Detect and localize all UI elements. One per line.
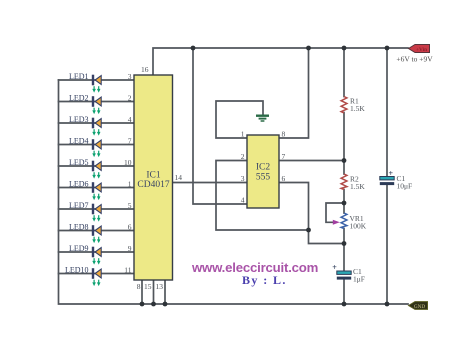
- svg-text:LED4: LED4: [69, 137, 89, 146]
- svg-text:6: 6: [282, 174, 286, 183]
- svg-text:GND: GND: [414, 304, 425, 310]
- svg-text:3: 3: [128, 72, 132, 81]
- svg-text:1μF: 1μF: [353, 274, 365, 283]
- svg-text:+: +: [332, 263, 337, 272]
- svg-text:LED10: LED10: [65, 266, 89, 275]
- svg-text:LED7: LED7: [69, 201, 89, 210]
- svg-text:14: 14: [175, 173, 183, 182]
- svg-text:LED1: LED1: [69, 72, 89, 81]
- svg-text:16: 16: [141, 65, 149, 74]
- svg-text:+: +: [389, 169, 394, 178]
- svg-text:10μF: 10μF: [397, 182, 413, 191]
- svg-text:+6V to +9V: +6V to +9V: [396, 54, 433, 63]
- svg-text:13: 13: [156, 282, 164, 291]
- svg-text:1.5K: 1.5K: [350, 104, 365, 113]
- svg-text:1: 1: [241, 130, 245, 139]
- svg-text:10: 10: [124, 158, 132, 167]
- svg-text:IC2: IC2: [256, 163, 271, 173]
- svg-text:11: 11: [124, 266, 131, 275]
- svg-text:7: 7: [282, 152, 286, 161]
- svg-text:8: 8: [282, 130, 286, 139]
- svg-text:2: 2: [241, 152, 245, 161]
- svg-text:+Vin: +Vin: [416, 47, 427, 53]
- svg-text:6: 6: [128, 223, 132, 232]
- svg-text:8: 8: [137, 282, 141, 291]
- svg-text:4: 4: [128, 115, 132, 124]
- svg-text:1: 1: [128, 180, 132, 189]
- svg-text:9: 9: [128, 244, 132, 253]
- svg-text:100K: 100K: [350, 222, 367, 231]
- svg-text:CD4017: CD4017: [137, 180, 169, 190]
- svg-text:LED3: LED3: [69, 115, 89, 124]
- svg-text:4: 4: [241, 196, 245, 205]
- svg-text:LED8: LED8: [69, 223, 89, 232]
- svg-text:5: 5: [128, 201, 132, 210]
- svg-text:2: 2: [128, 94, 132, 103]
- svg-text:LED2: LED2: [69, 94, 89, 103]
- svg-text:555: 555: [256, 173, 271, 183]
- svg-text:By : L.: By : L.: [242, 273, 287, 287]
- svg-text:1.5K: 1.5K: [350, 182, 365, 191]
- svg-text:LED9: LED9: [69, 244, 89, 253]
- svg-text:3: 3: [241, 174, 245, 183]
- svg-text:LED6: LED6: [69, 180, 89, 189]
- svg-text:7: 7: [128, 137, 132, 146]
- svg-text:LED5: LED5: [69, 158, 89, 167]
- svg-text:15: 15: [144, 282, 152, 291]
